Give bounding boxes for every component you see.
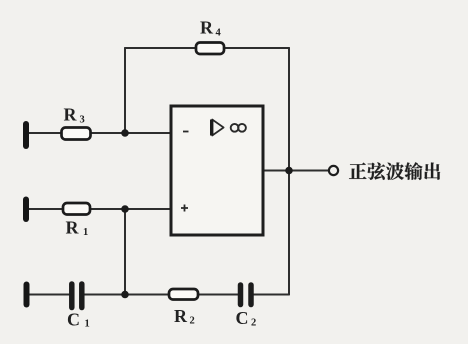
label output text 正弦波输出 (sine wave output) [349,162,440,180]
wire C2 to corner [253,294,289,296]
node A junction [121,129,129,137]
wire T2 to R1 [29,208,63,210]
wire op-amp output [264,170,329,172]
resistor R2 [169,289,198,300]
op-amp minus input sign [183,131,189,133]
wire top rail right of R4 to drop corner [224,47,289,49]
resistor R3 [62,128,91,140]
wire T1 to R3 [28,132,61,134]
capacitor C1 plates [72,284,82,308]
wire node B down to node C [124,209,126,295]
wire R2 to C2 [198,294,238,296]
output terminal circle [329,166,338,175]
svg-text:C: C [236,308,249,328]
output node junction [285,167,293,175]
node C junction [121,291,129,299]
wire right vertical drop [288,48,290,295]
svg-text:C: C [67,310,80,330]
capacitor C2 plates [241,285,252,305]
input terminal 3 [24,285,30,305]
op-amp infinity gain symbol [231,124,246,132]
wire node A riser to top rail [124,48,126,133]
wire R3 to node A and op-amp minus input [91,132,170,134]
resistor R1 [63,203,90,215]
svg-text:R: R [66,218,80,238]
wire top rail left of R4 [125,47,196,49]
op-amp plus input sign [181,205,188,212]
svg-text:R: R [64,105,78,125]
svg-text:2: 2 [190,316,195,327]
node B junction [121,205,129,213]
svg-text:4: 4 [216,28,222,39]
wire R1 to node B and op-amp plus input [90,208,170,210]
resistor R4 [196,43,224,55]
op-amp U1 body [171,106,263,235]
svg-text:R: R [174,306,188,326]
svg-text:1: 1 [83,227,88,238]
svg-text:3: 3 [80,115,85,126]
svg-text:1: 1 [85,319,90,330]
input terminal 2 [23,200,29,220]
wire T3 to C1 [29,294,69,296]
svg-text:R: R [200,18,214,38]
svg-text:2: 2 [251,318,256,329]
wire C1 to node C and R2 [85,294,170,296]
op-amp gain triangle symbol [212,120,224,136]
input terminal 1 [23,124,29,146]
